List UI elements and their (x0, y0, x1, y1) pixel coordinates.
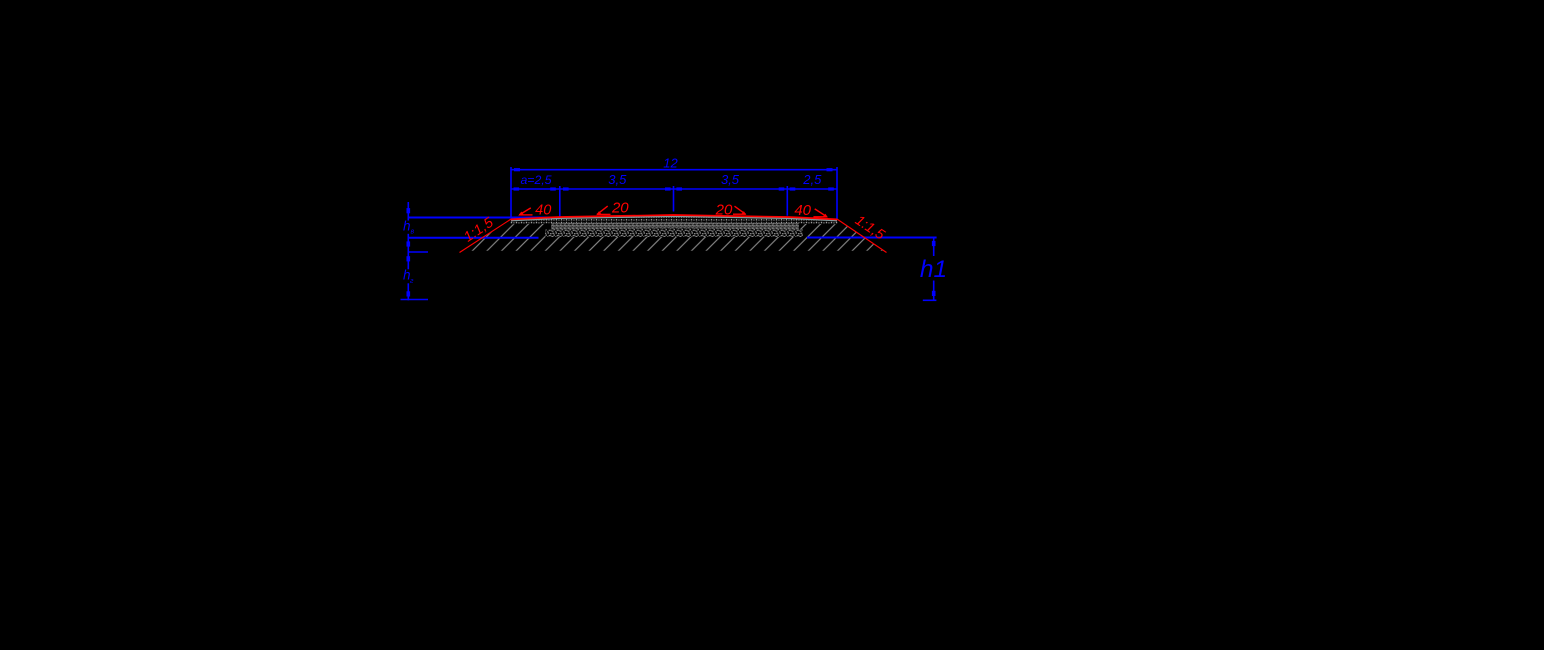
arrow box dim h_g top (407, 256, 411, 261)
pavement layer A (top course, full width) (511, 217, 838, 225)
svg-text:12: 12 (663, 156, 678, 171)
ext line carriageway right (786, 186, 788, 216)
embankment soil hatch (464, 224, 885, 251)
svg-text:3,5: 3,5 (721, 172, 740, 187)
svg-text:в: в (411, 229, 415, 236)
arrowhead slope sign 20 left (596, 211, 601, 215)
slope sign 40 left (519, 214, 532, 216)
arrow box dim 3,5 R left (676, 187, 682, 190)
arrowhead slope sign 20 right (742, 211, 747, 215)
left side slope 1:1.5 (460, 219, 511, 252)
arrow box dim 3,5 R right (779, 187, 785, 190)
arrow box dim h_v top (407, 208, 411, 213)
arrow box dim 2,5 right (828, 187, 834, 190)
arrow box dim 12 right (827, 168, 833, 171)
light strip under surface (511, 216, 837, 220)
svg-text:2,5: 2,5 (802, 172, 822, 187)
ext line right road edge (836, 167, 838, 219)
arrow box dim h_v bottom (407, 241, 411, 246)
dim line row2 (511, 188, 837, 190)
svg-text:3,5: 3,5 (608, 172, 627, 187)
road surface (511, 215, 838, 219)
h1 vertical dim line (933, 238, 935, 257)
left vertical dim line (gaps for text) (407, 202, 409, 221)
arrowhead slope sign 40 right (823, 214, 828, 218)
left stub bottom (401, 299, 429, 301)
ext line left road edge (510, 167, 512, 218)
h1 bottom stub (923, 299, 937, 301)
slope sign 20 right (733, 213, 746, 215)
ext line carriageway left (559, 186, 561, 217)
svg-text:20: 20 (611, 200, 629, 217)
arrow box dim 3,5 L right (665, 187, 671, 190)
arrow box dim 12 left (514, 168, 520, 171)
slope sign 20 left (597, 213, 611, 215)
right level line ground (807, 237, 937, 239)
blue arrow boxes (407, 168, 936, 296)
arrow box dim 3,5 L left (563, 187, 569, 190)
svg-text:h: h (403, 219, 411, 234)
pavement layer B (base course) (551, 222, 799, 231)
arrow box dim a=2,5 left (514, 187, 520, 190)
arrow box dim a=2,5 right (550, 187, 556, 190)
slope sign 40 right (813, 216, 827, 218)
arrow box dim h_g bottom (407, 291, 411, 296)
pavement layer C (sub-base) (545, 228, 803, 237)
svg-text:40: 40 (794, 202, 811, 219)
blue dimension texts (403, 156, 947, 285)
right side slope 1:1.5 (838, 219, 887, 252)
arrowhead slope sign 40 left (518, 212, 523, 216)
svg-text:г: г (410, 278, 414, 285)
svg-text:40: 40 (535, 202, 551, 218)
svg-text:h1: h1 (920, 256, 947, 283)
left level line ground (408, 237, 538, 239)
svg-text:20: 20 (715, 202, 733, 219)
ext line axis (673, 186, 675, 212)
arrow box dim 2,5 left (790, 187, 796, 190)
svg-text:a=2,5: a=2,5 (520, 173, 551, 187)
arrow box dim h1 bottom (932, 291, 936, 296)
arrow box dim h1 top (932, 241, 936, 246)
dim line 12 (511, 169, 837, 171)
left level line top (408, 217, 551, 219)
left stub mid (408, 251, 428, 253)
